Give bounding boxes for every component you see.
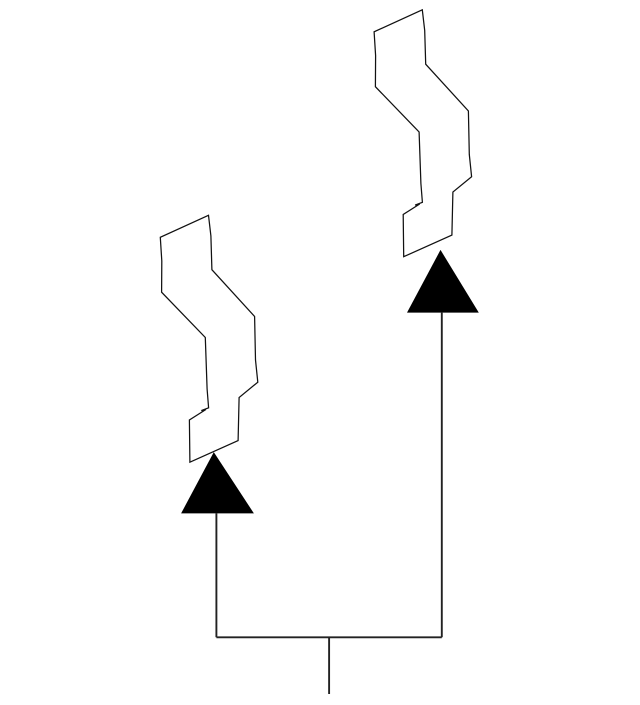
shape outline left (irregular polygon leaf A): [160, 215, 257, 462]
wire right branch vertical: [441, 313, 443, 638]
wire left branch vertical: [215, 513, 217, 637]
arrowhead triangle left: [181, 452, 254, 513]
wire horizontal connector: [216, 636, 441, 638]
arrowhead triangle right: [407, 250, 479, 313]
wire root stem: [328, 637, 330, 694]
shape outline right (irregular polygon leaf B): [374, 10, 471, 257]
